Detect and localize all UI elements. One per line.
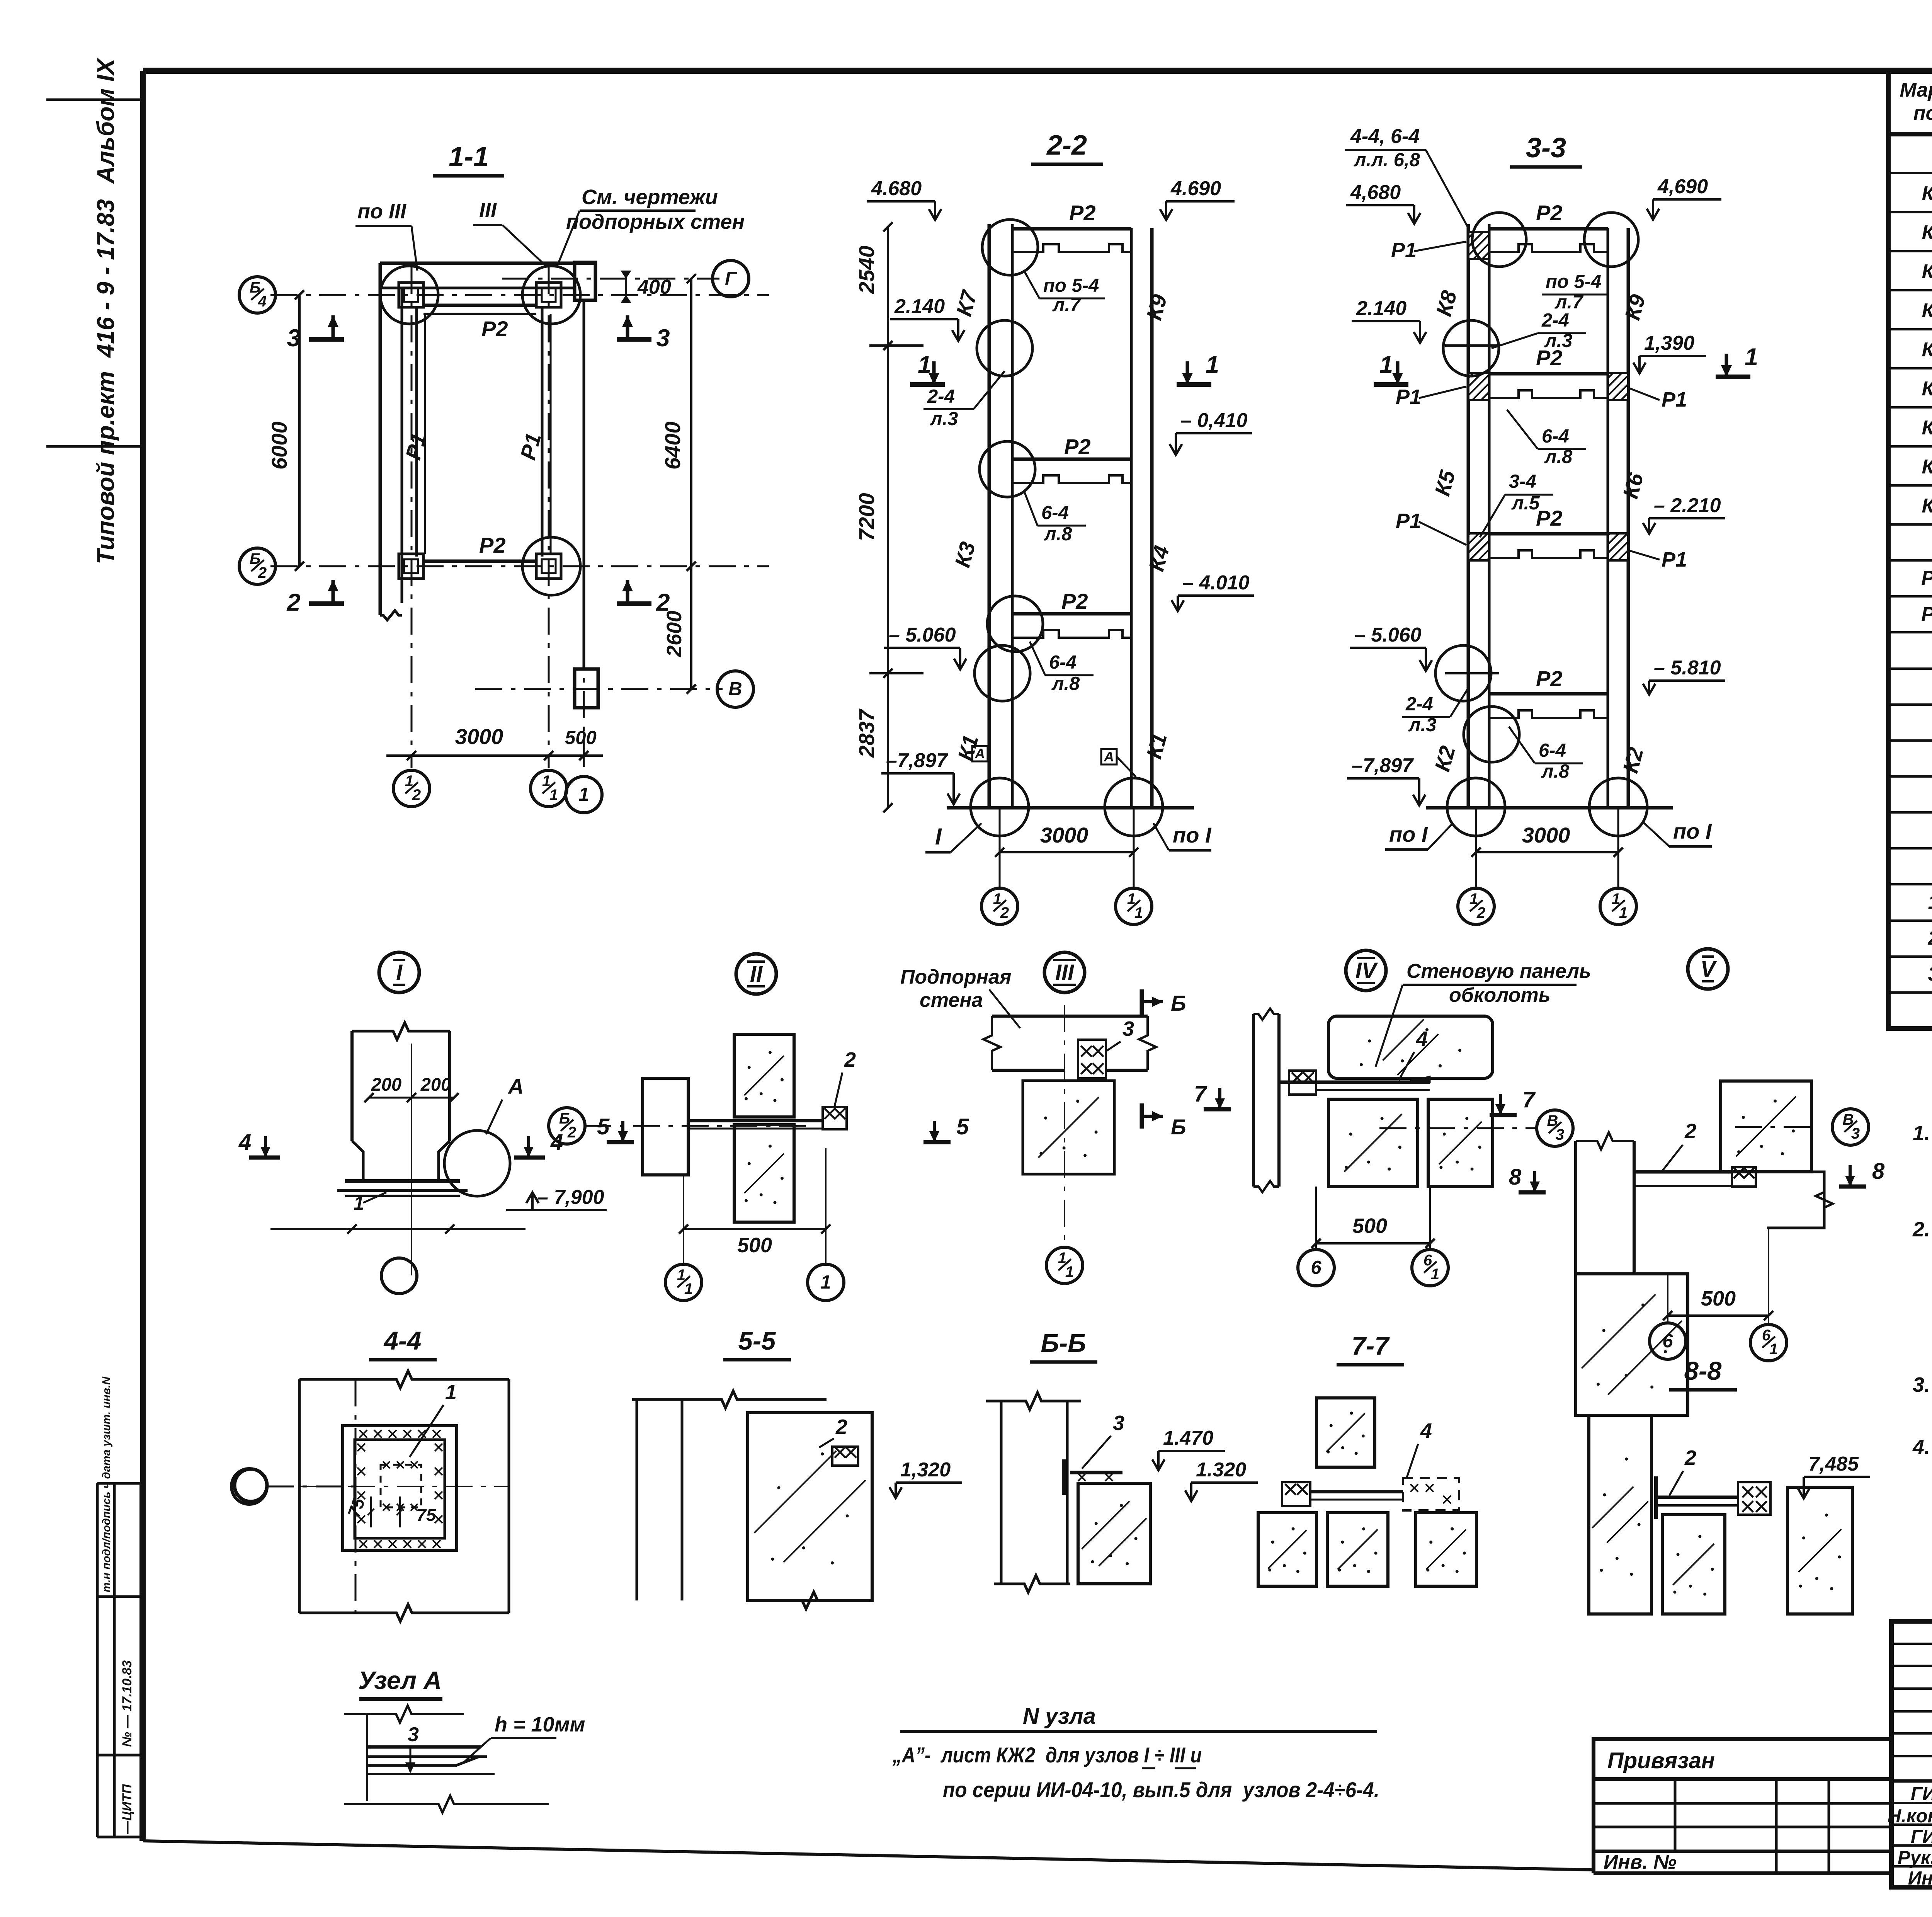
svg-text:Р2: Р2: [479, 533, 506, 557]
узел А break lines: [366, 1714, 368, 1801]
svg-text:Р1: Р1: [1396, 385, 1421, 409]
node III section mark Б top: [1140, 989, 1144, 1015]
svg-text:200: 200: [420, 1074, 451, 1095]
svg-text:4: 4: [238, 1130, 251, 1155]
node V lower left wall: [1576, 1274, 1688, 1415]
svg-text:V: V: [1701, 957, 1717, 982]
svg-text:Р2: Р2: [1061, 589, 1088, 613]
P1 plate third-right of 3-3: [1608, 533, 1628, 560]
svg-text:8: 8: [1509, 1165, 1522, 1190]
svg-text:200: 200: [371, 1074, 401, 1095]
svg-text:2.: 2.: [1912, 1218, 1930, 1241]
node III axis circle 1/1: [1046, 1247, 1083, 1284]
node II dimension 500: [684, 1228, 826, 1230]
svg-text:Р2: Р2: [481, 317, 508, 341]
axis В chain line: [475, 688, 723, 690]
svg-text:6400: 6400: [660, 421, 685, 470]
svg-text:7: 7: [1522, 1087, 1536, 1112]
svg-text:А: А: [507, 1074, 524, 1098]
section mark 1 right of 2-2: [1177, 382, 1211, 387]
svg-text:по 5-4: по 5-4: [1546, 271, 1601, 292]
svg-text:3: 3: [1928, 963, 1932, 986]
node V beam: [1634, 1170, 1732, 1174]
section 8-8 left wall: [1589, 1415, 1651, 1614]
svg-text:Рук.гр.: Рук.гр.: [1898, 1847, 1932, 1868]
svg-text:л.л. 6,8: л.л. 6,8: [1354, 150, 1420, 170]
svg-text:4,690: 4,690: [1657, 175, 1708, 198]
node III column: [1023, 1081, 1114, 1174]
axis circle 1/2 plan: [393, 770, 430, 807]
svg-text:Инж.: Инж.: [1908, 1868, 1932, 1889]
wall right line: [583, 300, 585, 669]
dimension 3000 500 bottom: [386, 754, 603, 757]
svg-text:Р2: Р2: [1921, 603, 1932, 625]
node circle V: [1688, 949, 1728, 989]
svg-text:6-4: 6-4: [1049, 652, 1077, 673]
node II wall panel lower: [734, 1125, 794, 1222]
section 4-4 outer walls: [299, 1371, 509, 1388]
svg-text:2: 2: [1684, 1120, 1696, 1143]
svg-text:3-4: 3-4: [1509, 471, 1536, 492]
svg-text:2: 2: [844, 1048, 856, 1071]
node I section mark 4 right: [514, 1156, 545, 1160]
svg-text:1: 1: [1745, 344, 1758, 371]
column K9-K4-K1 right of 2-2: [1130, 228, 1133, 808]
axis circle 1/1 of 2-2: [1116, 888, 1152, 924]
axis circle Г: [713, 260, 749, 297]
column K8-K5-K2 left of 3-3: [1467, 224, 1470, 808]
column at Б/4 x 1/2: [399, 283, 423, 307]
joint circle 3-3 lower-left: [1464, 707, 1519, 762]
svg-text:Альбом IX: Альбом IX: [92, 57, 119, 184]
section mark 1 left of 2-2: [910, 382, 945, 387]
beam P2 top of 3-3: [1489, 227, 1608, 231]
node II column: [643, 1078, 688, 1175]
svg-text:№ — 17.10.83: № — 17.10.83: [120, 1660, 134, 1747]
svg-text:2-2: 2-2: [1046, 130, 1087, 161]
svg-text:Р1: Р1: [1921, 567, 1932, 589]
axis circle Б/4: [239, 277, 276, 313]
svg-text:Р2: Р2: [1536, 666, 1563, 691]
svg-text:ГИП: ГИП: [1911, 1827, 1932, 1847]
svg-text:I: I: [935, 824, 942, 850]
node III wall band: [992, 1015, 1148, 1018]
svg-text:8-8: 8-8: [1684, 1357, 1722, 1386]
svg-text:3000: 3000: [1522, 823, 1570, 847]
node V axis circle 6/1: [1750, 1325, 1787, 1361]
section mark 2 right: [617, 601, 651, 606]
joint circle 2-2 mid-left: [980, 441, 1035, 497]
section 7-7 panel left: [1258, 1513, 1316, 1586]
node V left wall upper: [1574, 1141, 1577, 1274]
svg-text:4.680: 4.680: [871, 177, 922, 200]
svg-text:75: 75: [417, 1505, 436, 1525]
beam P2 mid of 2-2: [1012, 458, 1131, 461]
svg-text:Р1: Р1: [1662, 388, 1687, 411]
svg-text:А: А: [1104, 749, 1114, 764]
svg-text:по 5-4: по 5-4: [1043, 275, 1099, 296]
svg-text:по серии ИИ-04-10, вып.5 для: по серии ИИ-04-10, вып.5 для узлов 2-4÷6…: [943, 1777, 1379, 1802]
title block привязан box: [1594, 1739, 1891, 1779]
dimension 6400 2600: [690, 279, 692, 689]
svg-text:6: 6: [1311, 1257, 1321, 1278]
svg-text:1: 1: [820, 1272, 831, 1293]
beam P2 fourth of 3-3: [1489, 692, 1608, 696]
svg-text:„А”- лист КЖ2 для узлов I ÷: „А”- лист КЖ2 для узлов I ÷ III и: [892, 1743, 1202, 1767]
svg-text:400: 400: [637, 276, 671, 298]
node IV dimension 500: [1316, 1242, 1430, 1245]
svg-text:1: 1: [1065, 1263, 1074, 1280]
section 8-8 panel right: [1787, 1487, 1852, 1614]
svg-text:1: 1: [1134, 904, 1143, 921]
svg-text:– 0,410: – 0,410: [1180, 409, 1248, 432]
svg-text:по I: по I: [1173, 823, 1212, 847]
svg-text:I: I: [396, 960, 403, 985]
beam P2 top of 2-2: [1012, 227, 1131, 231]
svg-text:Б-Б: Б-Б: [1041, 1329, 1086, 1358]
node V section mark 8 right: [1839, 1185, 1866, 1189]
section 4-4 inner anchor ring: [381, 1465, 421, 1507]
svg-text:IV: IV: [1355, 958, 1378, 983]
section 4-4 axis circle: [231, 1469, 267, 1504]
узел А plate stack: [367, 1745, 481, 1749]
svg-text:1: 1: [918, 351, 931, 378]
svg-text:Марка,: Марка,: [1900, 79, 1932, 101]
svg-text:2: 2: [1000, 904, 1009, 921]
joint circle 2-2 splice -5.060: [975, 645, 1030, 701]
svg-text:Р2: Р2: [1064, 434, 1091, 459]
svg-text:л.8: л.8: [1544, 446, 1573, 467]
svg-text:4,680: 4,680: [1350, 181, 1401, 204]
node III connection plate: [1078, 1040, 1106, 1078]
svg-text:л.3: л.3: [1544, 330, 1572, 351]
P1 plate top-left of 3-3: [1468, 232, 1489, 259]
svg-text:1-1: 1-1: [449, 141, 489, 172]
svg-text:1.470: 1.470: [1163, 1427, 1213, 1449]
svg-text:Узел А: Узел А: [358, 1666, 442, 1694]
svg-text:ГИП: ГИП: [1911, 1784, 1932, 1805]
joint circle 3-3 top-right: [1584, 213, 1638, 267]
column at Б/2 x 1/2: [399, 554, 423, 579]
svg-text:1: 1: [354, 1193, 364, 1214]
node IV section mark 7 right: [1490, 1113, 1517, 1117]
svg-text:В: В: [728, 679, 742, 700]
svg-text:Р2: Р2: [1536, 506, 1563, 530]
svg-text:3: 3: [656, 325, 670, 352]
svg-text:6000: 6000: [267, 421, 291, 470]
svg-text:6-4: 6-4: [1539, 740, 1566, 761]
beam P2 third of 3-3: [1489, 532, 1608, 536]
node V dimension 500: [1668, 1314, 1769, 1317]
svg-text:1: 1: [1619, 904, 1628, 921]
svg-text:1: 1: [445, 1381, 457, 1404]
svg-text:л.7: л.7: [1554, 292, 1584, 313]
svg-text:500: 500: [737, 1234, 772, 1257]
section Б-Б panel: [1078, 1483, 1150, 1584]
section mark 1 right of 3-3: [1716, 375, 1750, 379]
svg-text:2-4: 2-4: [1541, 310, 1569, 331]
axis circle В: [717, 671, 753, 707]
svg-text:2: 2: [835, 1415, 847, 1439]
section Б-Б wall: [986, 1393, 1081, 1410]
axis line down-right 2-2: [1133, 808, 1135, 889]
svg-text:8: 8: [1872, 1159, 1885, 1184]
node V top right panel: [1721, 1081, 1811, 1172]
section 5-5 wall: [632, 1391, 827, 1408]
svg-text:л.5: л.5: [1511, 493, 1540, 514]
svg-text:1: 1: [549, 787, 558, 804]
retaining wall left band: [379, 263, 382, 615]
node circle III: [1044, 952, 1085, 993]
axis 1/2 chain line: [411, 267, 413, 768]
svg-text:1: 1: [578, 784, 589, 805]
svg-text:Привязан: Привязан: [1607, 1748, 1715, 1773]
svg-text:2600: 2600: [663, 611, 686, 657]
node V axis circle 6: [1650, 1323, 1686, 1359]
node IV axis circle В/3: [1537, 1110, 1573, 1146]
svg-text:2: 2: [412, 787, 421, 804]
section 4-4 weld x marks: [359, 1430, 367, 1438]
section 7-7 panel mid: [1327, 1513, 1388, 1586]
joint circle 3-3 splice 2.140: [1443, 320, 1499, 376]
svg-text:Р1: Р1: [1662, 548, 1687, 571]
svg-text:л.8: л.8: [1051, 673, 1080, 694]
svg-text:500: 500: [565, 727, 597, 748]
svg-text:2: 2: [1928, 927, 1932, 950]
svg-text:2540: 2540: [854, 245, 879, 294]
svg-text:– 7,900: – 7,900: [537, 1186, 604, 1209]
svg-text:1,390: 1,390: [1644, 332, 1694, 354]
svg-text:Б: Б: [1171, 991, 1186, 1015]
joint circle 3-3 base-left: [1447, 778, 1505, 836]
beam P2 lower of 2-2: [1012, 612, 1131, 616]
section 8-8 beam: [1658, 1496, 1738, 1499]
axis circle 1/1 of 3-3: [1600, 888, 1636, 924]
sidebar tick marks: [46, 99, 143, 101]
node V axis В/3 chain: [1735, 1126, 1816, 1128]
P1 plate second-right of 3-3: [1608, 373, 1628, 400]
svg-text:1.: 1.: [1913, 1122, 1930, 1145]
dimension chain 2-2: [887, 227, 889, 808]
table horizontal lines: [1888, 172, 1932, 174]
svg-text:Г: Г: [725, 268, 737, 289]
axis circle Б/2: [239, 548, 276, 584]
svg-text:К6: К6: [1922, 378, 1932, 400]
node IV section mark 7 left: [1204, 1107, 1231, 1112]
axis circle 1 plan: [566, 776, 602, 813]
svg-text:л.8: л.8: [1541, 761, 1570, 782]
svg-text:по III: по III: [357, 200, 406, 223]
svg-text:2: 2: [258, 564, 267, 581]
привязан rows: [1594, 1777, 1891, 1781]
punch hole: [235, 1469, 267, 1502]
svg-text:N узла: N узла: [1023, 1704, 1096, 1729]
svg-text:2-4: 2-4: [927, 386, 955, 407]
svg-text:4-4: 4-4: [383, 1326, 422, 1355]
dimension 3000 of 3-3: [1476, 851, 1618, 853]
column at Б/4 x 1/1: [536, 283, 561, 307]
svg-text:стена: стена: [920, 989, 983, 1011]
svg-text:К8: К8: [1922, 456, 1932, 478]
wall pier bottom right: [575, 669, 598, 708]
svg-text:4.690: 4.690: [1170, 177, 1221, 200]
node IV lower panel right: [1428, 1099, 1493, 1187]
node circle II: [736, 954, 776, 994]
svg-text:2: 2: [1476, 904, 1485, 921]
svg-text:6-4: 6-4: [1041, 502, 1069, 523]
svg-text:500: 500: [1701, 1287, 1736, 1310]
detail circle at Б/4 x 1/1: [522, 266, 580, 324]
retaining wall top band: [380, 262, 595, 265]
joint circle 3-3 splice -5.060: [1435, 645, 1491, 701]
P1 plate third-left of 3-3: [1468, 533, 1489, 560]
node II axis circle Б/2: [549, 1108, 585, 1144]
P1 plate second-left of 3-3: [1468, 373, 1489, 400]
joint circle 3-3 top-left: [1472, 213, 1526, 267]
svg-text:Б: Б: [1171, 1115, 1186, 1139]
node I dim 200 200: [369, 1097, 454, 1099]
dimension 400: [625, 279, 627, 295]
axis 1/1 chain line: [548, 267, 550, 768]
node I axis circle: [381, 1258, 417, 1294]
svg-text:III: III: [1055, 960, 1075, 985]
beam P1 right: [541, 307, 544, 557]
section 4-4 column inner square: [355, 1440, 445, 1538]
node IV connection plate: [1289, 1071, 1316, 1095]
svg-text:Р2: Р2: [1536, 201, 1563, 225]
detail circle at Б/4 x 1/2: [380, 266, 438, 324]
svg-text:4: 4: [258, 293, 267, 310]
svg-text:К1: К1: [1922, 182, 1932, 205]
svg-text:4: 4: [1416, 1027, 1428, 1050]
svg-text:4: 4: [1420, 1419, 1432, 1442]
svg-text:7-7: 7-7: [1352, 1331, 1390, 1360]
svg-text:К5: К5: [1922, 339, 1932, 361]
joint circle 2-2 top-left: [982, 220, 1038, 275]
svg-text:Н.контр.: Н.контр.: [1888, 1806, 1932, 1827]
svg-text:2: 2: [1684, 1446, 1696, 1469]
svg-text:Подпорная: Подпорная: [900, 966, 1012, 988]
section 7-7 top panel: [1316, 1398, 1375, 1467]
svg-text:1: 1: [1431, 1266, 1439, 1283]
beam P2 second of 3-3: [1489, 372, 1608, 376]
svg-text:2.140: 2.140: [1356, 297, 1406, 320]
section mark 2 left: [309, 601, 344, 606]
beam P2 top: [423, 304, 536, 307]
column K7-K3-K1 left of 2-2: [988, 224, 991, 808]
svg-text:2: 2: [567, 1124, 576, 1141]
svg-text:Р1: Р1: [1391, 238, 1417, 262]
axis line down-left 2-2: [999, 808, 1001, 889]
orientation mark A right: [1101, 749, 1117, 764]
node I baseplate: [345, 1179, 460, 1183]
svg-text:л.8: л.8: [1044, 524, 1072, 545]
section mark 1 left of 3-3: [1374, 382, 1408, 387]
axis line down-right 3-3: [1617, 808, 1619, 889]
node IV beam plate: [1279, 1081, 1430, 1084]
svg-text:– 2.210: – 2.210: [1654, 494, 1721, 517]
node IV axis circle 6/1: [1412, 1250, 1448, 1286]
svg-text:К3: К3: [1922, 260, 1932, 283]
specification table header row: [1888, 132, 1932, 136]
node II wall panel upper: [734, 1034, 794, 1117]
svg-text:обколоть: обколоть: [1449, 984, 1551, 1006]
svg-text:См. чертежи: См. чертежи: [582, 186, 718, 209]
svg-text:1: 1: [1206, 351, 1219, 378]
section Б-Б plate 3: [1062, 1459, 1066, 1495]
section 7-7 beam dashed: [1310, 1490, 1403, 1493]
section 4-4 column outer square: [343, 1426, 457, 1550]
svg-text:5: 5: [597, 1114, 610, 1139]
svg-text:К4: К4: [1922, 300, 1932, 322]
dimension 3000 of 2-2: [1000, 851, 1134, 853]
joint circle 3-3 base-right: [1589, 778, 1647, 836]
node V axis circle В/3: [1832, 1109, 1869, 1145]
svg-text:подпорных стен: подпорных стен: [566, 210, 745, 233]
svg-text:3000: 3000: [1040, 823, 1088, 847]
svg-text:III: III: [479, 199, 497, 222]
title block sign-off table: [1891, 1621, 1932, 1887]
section 8-8 plate: [1738, 1482, 1770, 1515]
ground line 3-3: [1426, 806, 1673, 810]
svg-text:К9: К9: [1922, 495, 1932, 517]
node III axis chain: [1064, 1005, 1065, 1248]
node II connection plate: [823, 1107, 847, 1129]
section 8-8 vertical plate: [1654, 1476, 1658, 1519]
section mark 3 right: [617, 337, 651, 342]
axis Б/2 chain line: [270, 565, 769, 567]
node III section mark Б bottom: [1140, 1103, 1144, 1129]
svg-text:h = 10мм: h = 10мм: [495, 1713, 585, 1736]
svg-text:6-4: 6-4: [1542, 426, 1569, 447]
node I dimension line: [270, 1228, 526, 1230]
axis circle 1/2 of 3-3: [1458, 888, 1494, 924]
node circle IV: [1346, 950, 1386, 991]
node I section mark 4 left: [249, 1156, 280, 1160]
svg-text:3: 3: [1122, 1017, 1134, 1040]
svg-text:1: 1: [1928, 891, 1932, 913]
node IV left wall: [1252, 1014, 1255, 1187]
svg-text:4-4, 6-4: 4-4, 6-4: [1350, 125, 1420, 148]
svg-text:7,485: 7,485: [1808, 1453, 1859, 1475]
svg-text:1: 1: [684, 1280, 693, 1297]
node II section mark 5 left: [607, 1140, 634, 1144]
node II axis circle 1/1: [665, 1264, 702, 1301]
svg-text:–7,897: –7,897: [886, 749, 948, 772]
section 5-5 panel: [748, 1413, 872, 1600]
section 5-5 plate 2: [832, 1447, 858, 1466]
section mark 3 left: [309, 337, 344, 342]
svg-text:500: 500: [1352, 1214, 1387, 1238]
detail circle at Б/2 x 1/1: [522, 537, 580, 595]
beam P2 lower: [423, 560, 536, 563]
svg-text:Р1: Р1: [1396, 509, 1421, 533]
svg-text:7200: 7200: [854, 493, 879, 541]
svg-text:3000: 3000: [455, 724, 503, 749]
svg-text:поз.: поз.: [1913, 102, 1932, 124]
bottom-left stamp column: [96, 1483, 99, 1837]
svg-text:по I: по I: [1673, 819, 1712, 843]
svg-text:л.7: л.7: [1052, 295, 1082, 315]
beam P1 left: [415, 307, 418, 557]
svg-text:5: 5: [956, 1114, 969, 1139]
svg-text:4.: 4.: [1912, 1435, 1930, 1459]
node V section mark 8 left: [1519, 1190, 1546, 1195]
svg-text:2837: 2837: [854, 708, 879, 758]
svg-text:1: 1: [1769, 1341, 1778, 1358]
node IV top panel: [1328, 1016, 1493, 1078]
svg-text:Р2: Р2: [1069, 201, 1096, 225]
